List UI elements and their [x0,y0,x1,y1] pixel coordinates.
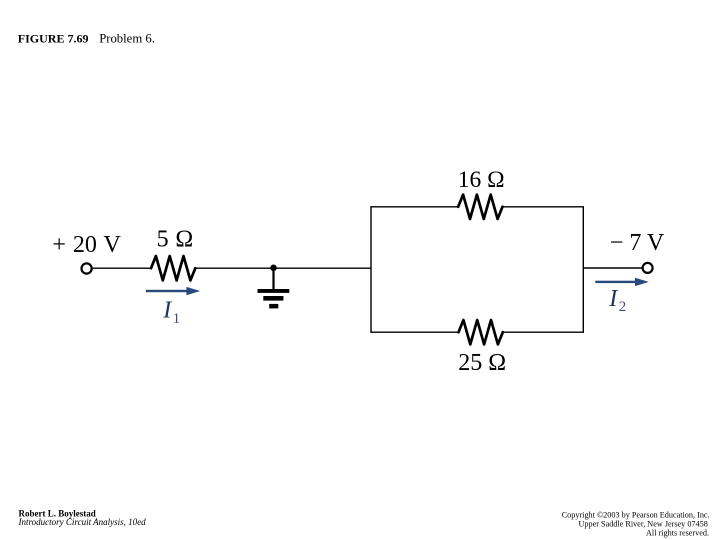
svg-text:5 Ω: 5 Ω [157,227,194,253]
ground [258,268,290,308]
svg-text:Introductory Circuit Analysis,: Introductory Circuit Analysis, 10ed [18,517,147,527]
svg-text:25 Ω: 25 Ω [458,350,506,376]
wire: block to right terminal [583,267,642,269]
resistor 25 ohm [459,320,503,344]
wire: top branch right segment [502,206,584,208]
svg-text:I: I [162,298,172,324]
terminal (right, open circle) [643,263,653,273]
svg-text:I: I [608,286,618,312]
svg-text:Upper Saddle River, New Jersey: Upper Saddle River, New Jersey 07458 [579,520,708,529]
figure caption "FIGURE 7.69 Problem 6." [18,32,155,46]
wire: bottom branch left segment [370,331,459,333]
svg-text:Problem 6.: Problem 6. [99,32,155,46]
wire: parallel block left edge [370,207,372,332]
svg-text:+ 20 V: + 20 V [52,232,121,258]
current arrow I1 [146,287,200,295]
current label I2 [608,286,626,315]
svg-text:1: 1 [173,311,181,327]
wire: bottom branch right segment [503,331,585,333]
svg-text:− 7 V: − 7 V [610,230,665,256]
node junction dot [270,265,277,272]
svg-text:All rights reserved.: All rights reserved. [646,529,709,538]
wire: left terminal to resistor R1 [93,267,152,269]
current label I1 [162,298,180,328]
svg-text:16 Ω: 16 Ω [458,167,505,193]
current arrow I2 [595,278,649,286]
terminal (left, open circle) [82,263,92,273]
wire: parallel block right edge [582,207,584,332]
wire: resistor R1 to parallel block (through ground node) [195,267,371,269]
footer author credit [18,508,147,527]
svg-text:2: 2 [619,299,627,315]
resistor 16 ohm [458,195,502,219]
footer copyright [562,510,710,537]
svg-text:Copyright ©2003 by Pearson Edu: Copyright ©2003 by Pearson Education, In… [562,510,710,519]
svg-text:FIGURE 7.69: FIGURE 7.69 [18,32,89,46]
resistor 5 ohm [151,256,195,280]
wire: top branch left segment [370,206,458,208]
